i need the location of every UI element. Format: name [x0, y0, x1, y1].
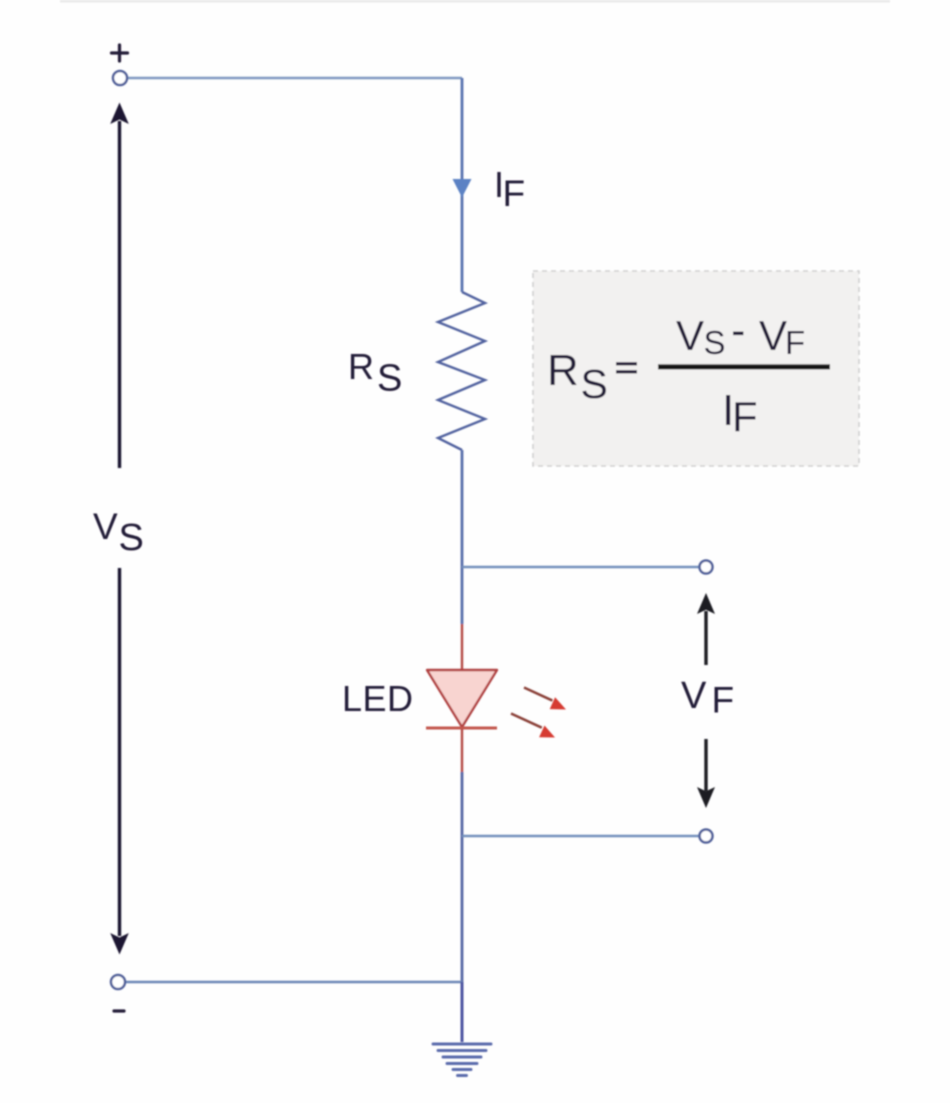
svg-text:R: R — [348, 346, 374, 387]
svg-text:S: S — [377, 358, 402, 400]
svg-text:V: V — [93, 506, 118, 547]
svg-text:S: S — [581, 361, 608, 407]
svg-text:F: F — [712, 680, 735, 721]
svg-text:V: V — [676, 312, 704, 359]
svg-text:F: F — [732, 393, 758, 440]
svg-text:S: S — [119, 517, 144, 559]
svg-text:V: V — [681, 675, 707, 717]
svg-text:LED: LED — [342, 678, 414, 719]
svg-text:R: R — [547, 346, 579, 395]
svg-text:F: F — [785, 324, 805, 361]
svg-text:S: S — [704, 324, 726, 361]
svg-text:V: V — [759, 312, 787, 359]
svg-text:F: F — [503, 173, 526, 214]
